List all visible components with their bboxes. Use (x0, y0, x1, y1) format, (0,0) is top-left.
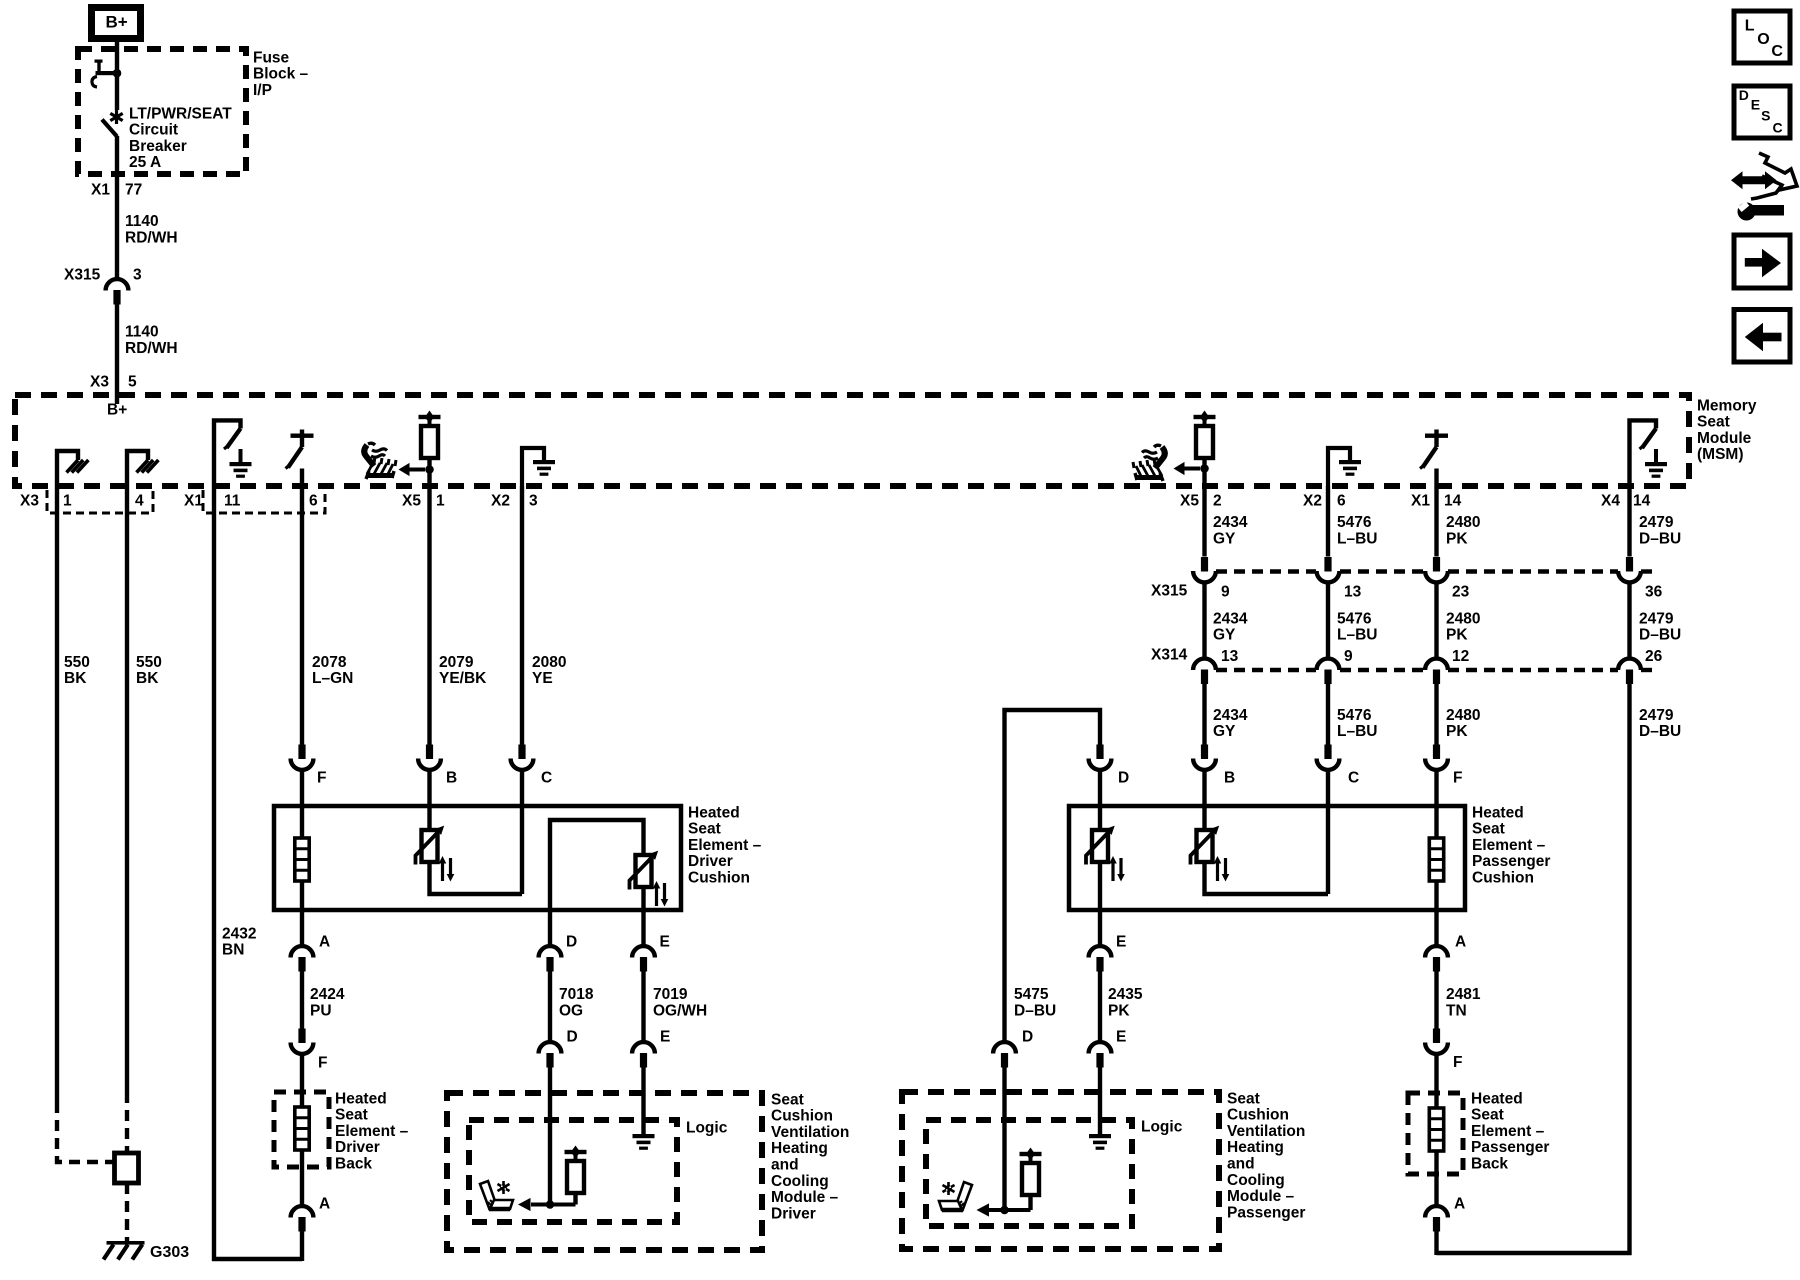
svg-text:Cushion: Cushion (1472, 870, 1534, 887)
connector pin A passenger cushion (1434, 910, 1438, 947)
heated seat element passenger back dashed box (1408, 1093, 1463, 1174)
MSM internal chassis ground at X3-4 (127, 451, 148, 486)
svg-text:2480: 2480 (1446, 610, 1480, 627)
svg-text:Passenger: Passenger (1471, 1139, 1549, 1156)
svg-text:and: and (771, 1157, 799, 1174)
svg-text:2: 2 (1213, 492, 1222, 509)
circuit breaker LT/PWR/SEAT 25 A (96, 71, 121, 75)
svg-text:L: L (1745, 17, 1755, 34)
svg-text:Ventilation: Ventilation (1227, 1123, 1305, 1140)
wire 2481 TN (1434, 972, 1438, 1029)
svg-text:1: 1 (63, 492, 72, 509)
svg-text:X2: X2 (491, 492, 510, 509)
svg-text:Seat: Seat (335, 1107, 368, 1124)
svg-text:A: A (319, 1195, 330, 1212)
svg-text:Back: Back (1471, 1156, 1508, 1173)
svg-text:O: O (1757, 31, 1769, 48)
svg-text:Cushion: Cushion (1227, 1107, 1289, 1124)
svg-text:1: 1 (436, 492, 445, 509)
connector pin B passenger cushion (1201, 745, 1208, 760)
heated seat icon passenger (1133, 445, 1165, 481)
wire 2080 YE from X2-3 (520, 486, 524, 745)
icon box LOC (1734, 11, 1790, 63)
wire 2479 D-BU from X4-14 (1627, 486, 1631, 557)
svg-text:Module –: Module – (1227, 1188, 1295, 1205)
MSM internal switch to ground at X4-14 (1630, 420, 1657, 486)
in-line connector D passenger module (993, 1042, 1016, 1053)
svg-text:2479: 2479 (1639, 707, 1674, 724)
svg-text:4: 4 (135, 492, 144, 509)
svg-text:PU: PU (310, 1002, 332, 1019)
svg-text:Logic: Logic (1141, 1118, 1183, 1135)
heated seat element driver back dashed box (274, 1092, 329, 1167)
heating element passenger back (1434, 1093, 1438, 1108)
logic dashed box passenger (926, 1120, 1132, 1226)
svg-text:X2: X2 (1303, 492, 1322, 509)
svg-text:2079: 2079 (439, 654, 474, 671)
svg-text:B+: B+ (106, 12, 128, 31)
svg-text:2078: 2078 (312, 654, 347, 671)
heating element driver back (300, 1092, 304, 1107)
svg-text:9: 9 (1221, 583, 1230, 600)
svg-text:X4: X4 (1601, 492, 1620, 509)
svg-text:7018: 7018 (559, 986, 594, 1003)
wire E into driver module (641, 1068, 645, 1135)
svg-text:GY: GY (1213, 723, 1236, 740)
svg-text:Passenger: Passenger (1227, 1204, 1305, 1221)
svg-text:Cooling: Cooling (771, 1173, 829, 1190)
svg-text:Passenger: Passenger (1472, 853, 1550, 870)
node B+ inside MSM (115, 395, 119, 404)
svg-text:5476: 5476 (1337, 610, 1372, 627)
svg-text:Breaker: Breaker (129, 138, 187, 155)
svg-text:2479: 2479 (1639, 514, 1674, 531)
svg-text:B: B (1224, 769, 1235, 786)
seat cushion ventilation heating and cooling module driver dashed box (447, 1093, 762, 1250)
svg-text:Logic: Logic (686, 1119, 728, 1136)
cooled seat icon driver (480, 1181, 513, 1209)
svg-text:Heated: Heated (1472, 804, 1524, 821)
MSM pin group dashed box X1 pins 11 6 (203, 490, 325, 513)
svg-text:PK: PK (1446, 723, 1468, 740)
svg-text:26: 26 (1645, 648, 1663, 665)
heated seat element driver cushion box (274, 806, 681, 910)
svg-text:Back: Back (335, 1156, 372, 1173)
svg-text:D: D (567, 1028, 578, 1045)
X314 dashed connector row (1216, 668, 1316, 672)
svg-text:Memory: Memory (1697, 397, 1757, 414)
thermistor passenger cushion D (1098, 806, 1102, 830)
wire 5476 L-BU from X2-6 (1326, 486, 1330, 557)
MSM internal ground at X2-3 (522, 448, 544, 486)
svg-text:7019: 7019 (653, 986, 688, 1003)
svg-text:and: and (1227, 1156, 1255, 1173)
svg-text:2434: 2434 (1213, 610, 1248, 627)
wire 2479 D-BU down right side (1627, 684, 1631, 1255)
svg-text:Driver: Driver (688, 853, 733, 870)
wire 7018 OG (548, 972, 552, 1043)
svg-text:Seat: Seat (688, 821, 721, 838)
svg-text:36: 36 (1645, 583, 1663, 600)
svg-text:6: 6 (1337, 492, 1346, 509)
connector pin B driver cushion (426, 745, 433, 760)
svg-text:Element –: Element – (688, 837, 762, 854)
svg-text:D: D (1118, 769, 1129, 786)
MSM internal resistor driver heated seat output (419, 415, 441, 419)
in-line connector X314 pin 12 (1425, 659, 1448, 670)
X315 dashed connector row (1216, 569, 1316, 573)
heating element passenger cushion (1434, 806, 1438, 838)
svg-text:Cushion: Cushion (688, 870, 750, 887)
svg-text:X5: X5 (1180, 492, 1199, 509)
arrow to passenger heated seat icon (1184, 467, 1200, 471)
svg-text:2481: 2481 (1446, 986, 1481, 1003)
svg-text:12: 12 (1452, 648, 1469, 665)
svg-text:BK: BK (64, 670, 87, 687)
heated seat element passenger cushion box (1069, 806, 1465, 910)
wire 2424 PU (300, 972, 304, 1029)
wire 2435 PK (1098, 972, 1102, 1043)
wire 2434 GY from X5-2 (1202, 469, 1206, 557)
svg-text:OG/WH: OG/WH (653, 1002, 707, 1019)
arrow to cooled seat icon driver (518, 1198, 531, 1211)
svg-text:GY: GY (1213, 627, 1236, 644)
icon box DESC (1734, 86, 1790, 138)
icon box back arrow (1734, 310, 1790, 363)
svg-text:13: 13 (1221, 648, 1239, 665)
in-line connector X315 pin 36 (1626, 557, 1633, 572)
svg-text:Seat: Seat (1471, 1107, 1504, 1124)
icon box forward arrow (1734, 235, 1790, 288)
wire 2432 BN from X1-11 (212, 486, 216, 1261)
svg-text:3: 3 (529, 492, 538, 509)
svg-text:23: 23 (1452, 583, 1470, 600)
thermistor passenger cushion B (1202, 806, 1206, 830)
wire breaker to X1 pin 77 (115, 136, 119, 279)
wire resistor to junction driver logic (531, 1203, 576, 1207)
splice junction block (115, 1153, 139, 1183)
svg-text:D: D (1739, 87, 1749, 103)
in-line connector D driver module (539, 1042, 562, 1053)
svg-text:13: 13 (1344, 583, 1362, 600)
wire 7019 OG/WH (641, 972, 645, 1043)
connector pin F driver back element (298, 1029, 305, 1044)
svg-text:Seat: Seat (1227, 1090, 1260, 1107)
svg-text:Cushion: Cushion (771, 1108, 833, 1125)
svg-text:PK: PK (1446, 627, 1468, 644)
svg-text:A: A (319, 933, 330, 950)
svg-text:E: E (1116, 1028, 1126, 1045)
svg-text:25 A: 25 A (129, 154, 161, 171)
svg-text:X1: X1 (1411, 492, 1430, 509)
svg-text:YE/BK: YE/BK (439, 670, 487, 687)
Memory Seat Module MSM dashed box (15, 395, 1689, 486)
wire B to C inside passenger cushion (1205, 862, 1329, 894)
svg-text:D: D (1022, 1028, 1033, 1045)
svg-text:Seat: Seat (771, 1091, 804, 1108)
connector pin E passenger cushion (1098, 910, 1102, 947)
svg-text:14: 14 (1444, 492, 1462, 509)
wire 2078 L-GN from X1-6 (300, 486, 304, 745)
wire resistor to junction passenger logic (989, 1208, 1031, 1212)
svg-text:2435: 2435 (1108, 986, 1143, 1003)
svg-text:3: 3 (133, 266, 142, 283)
connector pin E driver cushion (641, 910, 645, 947)
MSM internal ground at X2-6 (1328, 448, 1350, 486)
wire B+ box to circuit breaker (115, 38, 119, 71)
thermistor driver cushion E (636, 855, 652, 887)
svg-text:D–BU: D–BU (1639, 723, 1681, 740)
svg-text:C: C (541, 769, 552, 786)
resistor in driver logic (565, 1150, 587, 1154)
connector pin A driver back (300, 1167, 304, 1207)
svg-text:BN: BN (222, 942, 244, 959)
svg-text:OG: OG (559, 1002, 583, 1019)
svg-text:Ventilation: Ventilation (771, 1124, 849, 1141)
wire X315 to X3 pin 5 (115, 305, 119, 396)
svg-text:YE: YE (532, 670, 553, 687)
svg-text:L–BU: L–BU (1337, 627, 1377, 644)
connector pin F driver cushion (298, 745, 305, 760)
svg-text:A: A (1455, 933, 1466, 950)
MSM internal resistor passenger heated seat output (1194, 415, 1216, 419)
svg-text:C: C (1348, 769, 1359, 786)
svg-text:B: B (446, 769, 457, 786)
svg-text:D: D (566, 933, 577, 950)
wire 2480 PK from X1-14 (1434, 486, 1438, 557)
svg-text:2434: 2434 (1213, 707, 1248, 724)
MSM internal switch at X1-14 (1425, 434, 1448, 438)
svg-text:2480: 2480 (1446, 514, 1480, 531)
wire E into passenger module (1098, 1068, 1102, 1135)
wire 550 BK dashed to splice (57, 1102, 114, 1162)
svg-text:9: 9 (1344, 648, 1353, 665)
MSM internal switch at X1-6 (291, 434, 314, 438)
svg-text:Block –: Block – (253, 66, 309, 83)
earth ground in passenger logic (1089, 1134, 1111, 1138)
svg-text:550: 550 (136, 654, 162, 671)
svg-text:BK: BK (136, 670, 159, 687)
svg-text:Module –: Module – (771, 1189, 839, 1206)
fuse block dashed outline Fuse Block - I/P (78, 49, 246, 174)
svg-text:E: E (660, 933, 670, 950)
svg-text:Element –: Element – (1471, 1123, 1545, 1140)
svg-text:X315: X315 (64, 266, 101, 283)
in-line connector X314 pin 9 (1317, 659, 1340, 670)
svg-text:Seat: Seat (1472, 821, 1505, 838)
svg-text:2432: 2432 (222, 925, 256, 942)
svg-text:5476: 5476 (1337, 514, 1372, 531)
svg-text:X315: X315 (1151, 582, 1188, 599)
connector pin A driver cushion (300, 910, 304, 947)
svg-text:Driver: Driver (335, 1139, 380, 1156)
svg-text:D–BU: D–BU (1639, 627, 1681, 644)
wire B to C inside driver cushion (430, 862, 523, 894)
earth ground in driver logic (633, 1134, 655, 1138)
svg-text:(MSM): (MSM) (1697, 446, 1744, 463)
svg-text:D–BU: D–BU (1639, 531, 1681, 548)
wire bottom run to passenger seat back element (1437, 1251, 1632, 1255)
thermistor driver cushion B (427, 806, 431, 830)
in-line connector E passenger module (1089, 1042, 1112, 1053)
svg-text:X1: X1 (91, 181, 110, 198)
icon diagram navigation arrows and wrench (1747, 153, 1797, 190)
wire dashed into splice (125, 1092, 129, 1153)
svg-text:2424: 2424 (310, 986, 345, 1003)
svg-text:B+: B+ (107, 402, 127, 419)
svg-text:F: F (317, 769, 326, 786)
resistor in passenger logic (1020, 1152, 1042, 1156)
heated seat icon driver (364, 443, 396, 479)
in-line connector E driver module (632, 1042, 655, 1053)
svg-text:Element –: Element – (335, 1123, 409, 1140)
MSM pin group dashed box X3 pins 1 4 (47, 490, 153, 513)
svg-text:77: 77 (125, 181, 142, 198)
svg-text:5475: 5475 (1014, 986, 1049, 1003)
connector pin A passenger back (1434, 1174, 1438, 1207)
svg-text:6: 6 (309, 492, 318, 509)
svg-text:11: 11 (224, 492, 241, 509)
svg-text:2434: 2434 (1213, 514, 1248, 531)
svg-text:I/P: I/P (253, 82, 272, 99)
in-line connector X314 pin 13 (1193, 659, 1216, 670)
svg-text:LT/PWR/SEAT: LT/PWR/SEAT (129, 105, 232, 122)
svg-text:RD/WH: RD/WH (125, 340, 178, 357)
in-line connector X315 pin 13 (1324, 557, 1331, 572)
wire dashed splice to G303 (125, 1183, 129, 1241)
svg-text:C: C (1773, 120, 1783, 136)
svg-text:550: 550 (64, 654, 90, 671)
svg-text:5476: 5476 (1337, 707, 1372, 724)
svg-text:GY: GY (1213, 531, 1236, 548)
svg-text:C: C (1771, 43, 1783, 60)
svg-text:X5: X5 (402, 492, 421, 509)
ground G303 (107, 1241, 145, 1245)
svg-text:1140: 1140 (125, 324, 159, 341)
svg-text:2480: 2480 (1446, 707, 1480, 724)
svg-text:RD/WH: RD/WH (125, 229, 178, 246)
svg-text:X3: X3 (90, 373, 109, 390)
svg-text:PK: PK (1108, 1002, 1130, 1019)
wire D into passenger module (1002, 1068, 1006, 1211)
connector pin F passenger cushion (1433, 745, 1440, 760)
wire jog passenger cushion D (1005, 710, 1101, 1043)
logic dashed box driver (469, 1120, 677, 1222)
svg-text:Module: Module (1697, 430, 1752, 447)
svg-text:F: F (1453, 769, 1462, 786)
arrow to cooled seat icon passenger (977, 1203, 990, 1216)
MSM internal switch to ground at X1-11 (214, 420, 241, 486)
svg-text:2479: 2479 (1639, 610, 1674, 627)
svg-text:X314: X314 (1151, 646, 1188, 663)
connector pin C passenger cushion (1324, 745, 1331, 760)
svg-text:5: 5 (128, 373, 137, 390)
battery feed B+ terminal box (92, 8, 141, 39)
svg-text:S: S (1761, 108, 1770, 124)
svg-text:14: 14 (1633, 492, 1651, 509)
wire 550 BK from X3-1 (55, 486, 59, 1102)
svg-text:E: E (1116, 933, 1126, 950)
svg-text:L–BU: L–BU (1337, 723, 1377, 740)
svg-text:Heated: Heated (1471, 1090, 1523, 1107)
svg-text:TN: TN (1446, 1002, 1467, 1019)
svg-text:Driver: Driver (771, 1205, 816, 1222)
svg-text:2080: 2080 (532, 654, 566, 671)
svg-text:G303: G303 (150, 1244, 189, 1261)
connector pin C driver cushion (518, 745, 525, 760)
arrow to driver heated seat icon (409, 468, 425, 472)
heating element driver cushion (300, 806, 304, 838)
MSM internal chassis ground at X3-1 (57, 451, 78, 486)
svg-text:X3: X3 (20, 492, 39, 509)
svg-text:F: F (1453, 1054, 1462, 1071)
svg-text:Seat: Seat (1697, 414, 1730, 431)
svg-text:Circuit: Circuit (129, 122, 178, 139)
svg-text:Cooling: Cooling (1227, 1172, 1285, 1189)
svg-text:PK: PK (1446, 531, 1468, 548)
svg-text:Heating: Heating (771, 1140, 828, 1157)
wire bottom run to driver seat back element (212, 1257, 302, 1261)
connector pin D passenger cushion (1096, 745, 1103, 760)
in-line connector X315 pin 9 (1201, 557, 1208, 572)
wire D into driver module (548, 1068, 552, 1205)
svg-text:A: A (1454, 1195, 1465, 1212)
cooled seat icon passenger (939, 1182, 972, 1210)
svg-text:D–BU: D–BU (1014, 1002, 1056, 1019)
wire 550 BK from X3-4 (125, 486, 129, 1092)
svg-text:L–GN: L–GN (312, 670, 353, 687)
wire 2079 YE/BK from X5-1 (427, 470, 431, 745)
svg-text:E: E (660, 1028, 670, 1045)
svg-text:F: F (318, 1054, 327, 1071)
connector pin F passenger back element (1433, 1029, 1440, 1044)
svg-text:1140: 1140 (125, 213, 159, 230)
svg-text:L–BU: L–BU (1337, 531, 1377, 548)
svg-text:E: E (1751, 97, 1760, 113)
connector pin D driver cushion (548, 910, 552, 947)
svg-text:Heated: Heated (688, 804, 740, 821)
svg-text:Element –: Element – (1472, 837, 1546, 854)
in-line connector X315 pin 23 (1433, 557, 1440, 572)
svg-text:Heated: Heated (335, 1090, 387, 1107)
svg-text:Fuse: Fuse (253, 49, 290, 66)
wire D loop inside driver cushion (550, 820, 644, 910)
seat cushion ventilation heating and cooling module passenger dashed box (902, 1092, 1219, 1249)
in-line connector X314 pin 26 (1618, 659, 1641, 670)
wire driver back A to ground run (300, 1232, 304, 1262)
svg-text:X1: X1 (184, 492, 203, 509)
in-line connector X315 pin 3 (106, 279, 129, 290)
svg-text:Heating: Heating (1227, 1139, 1284, 1156)
